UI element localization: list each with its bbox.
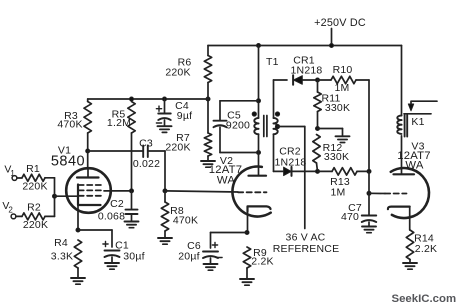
svg-text:1N218: 1N218 [275,156,307,168]
wire +250V rail [208,45,402,47]
wire rail to K1 [401,46,403,116]
resistor R12 [313,135,320,164]
node T1 center tap [275,124,279,128]
wire C5 top [220,100,259,102]
svg-text:2.2K: 2.2K [251,256,273,268]
wire V1 cathode lead [77,205,79,230]
resistor R8 [161,202,168,231]
capacitor C7 [362,215,377,217]
resistor R3 [84,102,91,134]
resistor R9 [243,247,250,268]
ground C6 [204,263,218,265]
resistor R1 [22,174,45,181]
node cathode junction [76,228,80,232]
svg-text:SeekIC.com: SeekIC.com [392,293,457,305]
wire C5 left lower [219,127,221,152]
wire grid node to V3 [369,192,385,194]
tube V1 grid3 dashes [79,184,105,186]
wire C2 to ground [131,214,133,222]
node rail-250V junction [330,44,334,48]
svg-text:R1: R1 [26,163,40,175]
node T1 secondary phase dot [275,112,279,116]
tube V1 plate [77,176,99,178]
wire C7 lead [368,193,370,215]
resistor R2 [22,213,45,220]
wire cathode to C6 [211,232,248,234]
wire cathode to C1 [78,229,112,231]
node input junction [53,194,57,198]
svg-text:+250V DC: +250V DC [314,17,366,29]
svg-text:R2: R2 [27,202,41,214]
svg-text:470K: 470K [173,215,198,227]
wire CR2 left [274,170,284,172]
wire mid to ground [318,128,343,130]
resistor R13 [332,168,357,175]
wire V1 screen to rail [104,190,132,192]
capacitor C3 [142,146,144,158]
wire C5 left upper [219,101,221,121]
wire screen rail [88,98,208,100]
ground R11-R12 [336,135,350,137]
svg-text:36 V AC: 36 V AC [286,232,326,244]
wire R10 to right column [356,79,369,81]
svg-text:3.3K: 3.3K [51,251,73,263]
capacitor C2 [126,209,138,211]
wire node to R8 [164,191,166,202]
wire R5 down to screen [131,133,133,191]
ground R9 [240,278,254,280]
wire R8 to ground [164,231,166,238]
label C4 plus [156,108,161,110]
tube V2 plate [249,175,267,177]
node C4 top [163,97,167,101]
svg-text:K1: K1 [411,116,424,128]
wire R14 to ground [409,260,411,264]
svg-text:1M: 1M [331,187,346,199]
wire C6 to ground [210,258,212,264]
node V1 plate junction [86,149,90,153]
wire grid node to V2 [165,191,238,192]
tube V3 cathode [388,207,410,210]
svg-text:30µf: 30µf [123,251,144,263]
svg-text:220K: 220K [22,181,47,193]
wire R2 to bar [45,215,55,217]
wire node to R7 [207,98,209,133]
node B junction [316,169,320,173]
node C5 bottom tap [257,151,261,155]
resistor R14 [406,230,413,260]
node screen junction [130,189,134,193]
wire T1 primary top [258,46,260,119]
node rail-T1 junction [257,44,261,48]
wire R12 to nodeB [317,163,318,171]
svg-text:220K: 220K [165,67,190,79]
tube V1 envelope [66,168,111,213]
svg-text:2: 2 [8,206,13,215]
node T1 primary phase dot [252,112,256,116]
terminal V2 [11,214,16,219]
wire rail corner R3 [87,99,89,102]
wire C4 to ground [164,120,166,126]
wire R7 to ground [207,156,209,161]
relay K1 core [404,115,406,137]
wire C3 to V2 grid node [148,150,165,152]
svg-text:1.2M: 1.2M [107,117,131,129]
wire input bar [54,178,56,217]
wire center tap [278,126,305,128]
capacitor C4 [158,113,171,115]
wire C2 lead [131,191,133,210]
svg-text:9200: 9200 [226,120,250,132]
relay K1 armature arrow [411,101,437,104]
wire C7 to ground [368,222,370,227]
resistor R7 [204,133,211,156]
svg-text:20µf: 20µf [178,251,199,263]
svg-text:1N218: 1N218 [291,64,323,76]
wire plate to C3 [88,150,144,152]
capacitor C1 [105,250,120,252]
wire +250V lead [331,29,333,46]
wire rail to R6 [207,46,209,56]
svg-text:5840: 5840 [51,154,85,170]
wire T1 secondary top to CR1 [273,80,275,118]
tube V3 grid dashes [385,193,407,195]
ground R14 [403,262,417,264]
tube V3 plate [394,173,415,175]
wire V1 plate lead [87,168,89,177]
capacitor C5 [214,120,227,122]
wire R6 to node [207,83,209,100]
svg-text:REFERENCE: REFERENCE [273,243,340,255]
diode CR1 [292,75,294,84]
resistor R10 [331,76,356,83]
transformer T1 secondary winding [274,118,278,123]
tube V1 cathode [78,185,101,206]
ground R4 [71,277,85,279]
wire nodeA to R10 [318,79,332,81]
node R11-R12 mid junction [316,127,320,131]
wire nodeB to R13 [318,170,333,172]
resistor R11 [314,92,321,112]
node C5 top tap [257,99,261,103]
wire C4 lead [164,99,166,114]
svg-text:C3: C3 [139,138,153,150]
svg-text:220K: 220K [165,142,190,154]
svg-text:470: 470 [341,211,359,223]
resistor R4 [74,240,81,268]
tube V2 cathode [248,206,271,211]
tube V2 grid dashes [238,191,267,193]
node screen-rail junction R6 [206,97,210,101]
node V2 cathode junction [245,231,249,235]
capacitor C6 [203,251,218,253]
svg-text:220K: 220K [23,219,48,231]
wire V3 cathode lead [409,207,411,230]
transformer T1 primary winding [254,118,258,123]
resistor R6 [204,56,211,83]
node V3 grid junction [367,191,371,195]
svg-text:0.068: 0.068 [98,211,125,223]
wire C5 bottom [220,152,259,154]
svg-text:0.022: 0.022 [133,158,160,170]
label C1 plus [103,243,108,245]
ground R7 [201,160,215,162]
ground R8 [158,237,172,239]
node right column R13 [367,169,371,173]
diode CR2 [284,167,292,175]
wire term1 to R1 [17,177,22,179]
ground C7 [362,226,376,228]
svg-text:470K: 470K [57,119,82,131]
ground C2 [125,221,139,223]
svg-text:R10: R10 [333,64,353,76]
svg-text:330K: 330K [325,102,350,114]
relay K1 armature bar [404,113,431,115]
wire R3 to plate [87,133,89,169]
node R5 top [130,97,134,101]
wire R4 to ground [77,268,79,278]
label C6 plus [212,244,217,246]
wire term2 to R2 [16,215,22,217]
svg-text:WA: WA [405,160,423,172]
tube V1 grid2 dashes [79,189,105,191]
wire column to grid node [368,171,370,193]
node V2 grid junction [163,189,167,193]
relay K1 coil [397,116,401,121]
wire K1 to V3 plate [401,136,403,175]
svg-text:T1: T1 [266,56,279,68]
wire grid V1 [55,195,79,197]
svg-text:C2: C2 [110,198,124,210]
wire V2 cathode lead [247,208,249,233]
terminal V1 [12,176,17,181]
tube V1 grid1 dashes [79,195,102,197]
svg-text:R4: R4 [54,237,68,249]
wire CR1 left [274,79,288,81]
wire C1 to ground [111,257,113,263]
tube V2 envelope [232,167,270,217]
svg-text:2.2K: 2.2K [415,243,437,255]
wire R9 to ground [246,268,248,279]
wire R11 to mid [317,112,319,129]
label C6 minus [217,257,222,259]
wire nodeA to R11 [317,80,319,92]
svg-text:WA: WA [217,175,235,187]
svg-text:330K: 330K [324,151,349,163]
tube V3 envelope [391,168,429,218]
wire T1 primary bottom to V2 plate [258,134,260,176]
wire R1 to bar [45,177,55,179]
svg-text:9µf: 9µf [177,110,192,122]
resistor R5 [128,102,135,134]
ground C1 [105,262,119,264]
transformer T1 core [263,116,265,137]
ground C4 [158,125,172,127]
wire T1 secondary bottom to CR2 [273,134,275,171]
wire R13 to right column [357,170,369,172]
node A junction [316,78,320,82]
